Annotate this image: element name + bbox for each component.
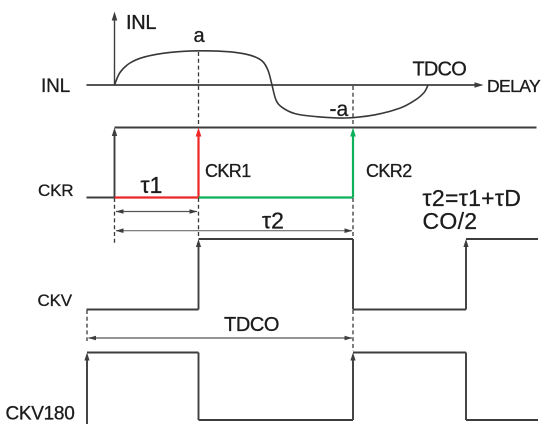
CKV180 rising edge 2 with arrow [350,353,355,421]
INL vertical axis [112,12,118,86]
CKV180 high segment 1 [87,352,199,354]
CKR2 green arrow [350,128,356,198]
svg-text:CKR1: CKR1 [205,161,251,181]
CKV low segment 2 [353,309,466,311]
svg-text:CKV: CKV [38,291,73,310]
tau2 dimension line [116,228,353,233]
svg-text:CO/2: CO/2 [423,208,478,234]
CKR1 red arrow [196,128,202,198]
CKV180 rising edge 1 with arrow [84,353,89,425]
svg-text:a: a [194,25,206,47]
svg-text:-a: -a [330,98,349,121]
CKV180 falling edge 2 [465,353,467,421]
svg-text:CKV180: CKV180 [6,404,75,425]
dashed guide at x=198.5 (below CKR baseline to CKV top) [198,198,200,237]
TDCO dimension line [88,336,353,341]
dashed guide at x=353 (below CKR baseline to CKV top) [352,198,354,238]
CKR baseline left segment [87,197,115,199]
dashed guide at x=353 (CKV low to CKV180 top) [352,310,354,351]
CKR rising edge arrow (black) [112,128,117,198]
svg-text:CKR2: CKR2 [366,161,412,181]
CKV rising edge 2 with arrow [463,239,468,310]
svg-text:TDCO: TDCO [413,59,467,81]
svg-text:INL: INL [126,12,156,34]
CKV high segment 1 [199,238,354,240]
CKV180 low segment 2 [466,419,538,421]
CKV180 falling edge 1 [198,353,200,421]
CKV180 low segment 1 [199,419,354,421]
CKV low segment 1 [87,309,199,311]
CKV high segment 2 [466,238,538,240]
CKR green baseline segment (tau2 span) [199,196,354,198]
svg-text:τ2: τ2 [262,208,284,234]
svg-text:INL: INL [41,76,70,97]
svg-text:τ1: τ1 [141,172,163,198]
DELAY horizontal axis [87,82,484,88]
dashed guide at x=353 (axis to CKR top) [352,86,354,126]
CKV180 high segment 2 [353,352,466,354]
tau1 dimension line [116,209,198,214]
CKR red baseline segment (tau1 span) [115,196,199,198]
INL sinusoid curve [115,51,429,118]
svg-text:TDCO: TDCO [224,314,279,336]
svg-text:CKR: CKR [38,181,73,200]
CKV rising edge 1 with arrow [196,239,201,310]
svg-text:DELAY: DELAY [487,76,541,96]
CKV falling edge 1 [352,239,354,310]
dashed guide at x=114.5 (below CKR baseline) [114,198,116,243]
dashed guide at x=87 (CKV low to TDCO line) [86,310,88,341]
dashed guide at x=198.5 (upper, peak to CKR top) [198,52,200,126]
CKR top line [115,127,537,129]
